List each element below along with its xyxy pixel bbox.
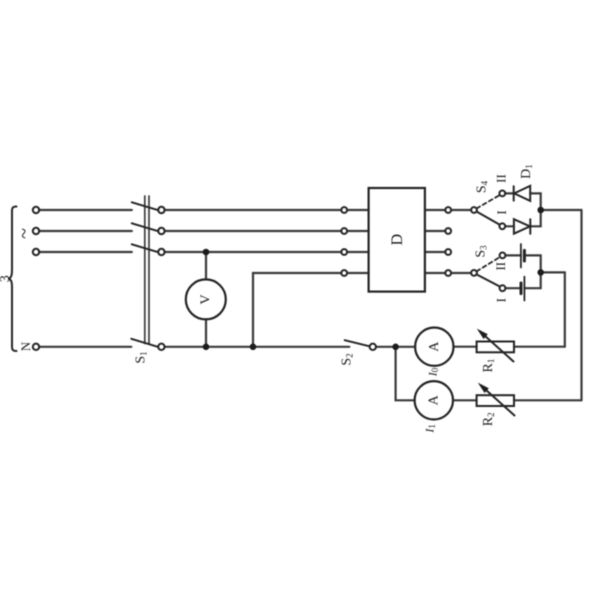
wire to diode upper — [505, 192, 514, 194]
node V tap — [203, 249, 210, 256]
D box input circle 4 — [341, 270, 347, 276]
R1 arrow — [481, 332, 514, 361]
wire R2 right — [514, 399, 582, 401]
svg-text:I: I — [494, 210, 509, 214]
wire right column outer — [580, 210, 582, 400]
switch S1 contact L2 — [158, 228, 164, 234]
switch S2 contact — [370, 344, 376, 350]
terminal L2 — [33, 228, 39, 234]
wire L1 to D — [165, 209, 342, 211]
switch S3 blade to I — [477, 274, 501, 286]
svg-text:S1: S1 — [134, 351, 149, 363]
svg-text:S4: S4 — [475, 180, 490, 193]
wire to diode lower — [505, 225, 514, 227]
stub input 3 — [347, 251, 369, 253]
switch S3 contact I — [500, 285, 506, 291]
wire branch down — [396, 347, 415, 401]
device D box — [369, 188, 425, 292]
D box output circle 1 — [445, 207, 451, 213]
diode D1 lower triangle — [514, 219, 530, 234]
cell upper long plate — [520, 244, 522, 268]
svg-text:D1: D1 — [519, 164, 534, 179]
ammeter I1 — [415, 381, 453, 419]
svg-text:S2: S2 — [340, 353, 355, 365]
wire D input 4 — [253, 273, 341, 347]
terminal N — [33, 344, 39, 350]
switch S3 pole — [471, 270, 477, 276]
svg-text:II: II — [493, 174, 508, 183]
switch S3 dashed to II — [477, 257, 501, 271]
brace 3-phase supply — [8, 207, 16, 352]
D box input circle 2 — [341, 228, 347, 234]
wire to cell lower — [505, 287, 521, 289]
svg-text:S3: S3 — [474, 245, 489, 258]
switch S1 blade L1 — [132, 202, 158, 210]
D box input circle 3 — [341, 249, 347, 255]
svg-text:I0: I0 — [426, 367, 441, 377]
svg-text:V: V — [198, 294, 213, 304]
ammeter I0 — [415, 328, 453, 366]
D box input circle 1 — [341, 207, 347, 213]
wire diode junction right — [541, 209, 582, 211]
stub output 3 — [425, 251, 445, 253]
node diode junction — [537, 207, 544, 214]
wire L3 to S1 — [39, 251, 132, 253]
svg-text:II: II — [493, 262, 508, 271]
switch S1 contact N — [158, 344, 164, 350]
wire output 1 to S4 — [451, 209, 471, 211]
svg-text:N: N — [18, 341, 33, 351]
wire cell junction right — [541, 271, 565, 273]
D box output circle 4 — [445, 270, 451, 276]
switch S4 pole — [471, 207, 477, 213]
switch S4 contact I — [499, 223, 505, 229]
R2 arrow — [482, 386, 515, 415]
stub output 1 — [425, 209, 445, 211]
node cell junction — [537, 269, 544, 276]
svg-text:3: 3 — [0, 275, 13, 282]
svg-text:R2: R2 — [481, 412, 496, 426]
switch S2 blade — [345, 340, 370, 346]
diode D1 upper triangle — [514, 186, 530, 201]
switch S4 blade to I — [477, 212, 500, 225]
wire V bottom — [205, 319, 207, 346]
D box output circle 2 — [445, 228, 451, 234]
wire L2 to S1 — [39, 230, 132, 232]
node V bottom — [203, 344, 210, 351]
wire N rail — [165, 346, 350, 348]
wire L2 to D — [165, 230, 342, 232]
stub output 2 — [425, 230, 445, 232]
stub input 4 — [347, 272, 369, 274]
wire L1 to S1 — [39, 209, 132, 211]
cell upper short plate — [523, 250, 526, 261]
switch S1 contact L3 — [158, 249, 164, 255]
switch S4 dashed to II — [477, 195, 500, 209]
svg-text:D: D — [389, 234, 406, 246]
svg-text:I1: I1 — [423, 424, 438, 434]
switch S1 contact L1 — [158, 207, 164, 213]
switch S1 blade L2 — [132, 223, 158, 231]
cell lower short plate — [520, 283, 523, 294]
resistor R1 — [477, 342, 514, 353]
switch S1 link bar — [144, 196, 146, 344]
switch S1 blade L3 — [132, 244, 158, 252]
node ammeter branch — [392, 344, 399, 351]
stub output 4 — [425, 272, 445, 274]
wire L3 to D — [165, 251, 342, 253]
switch S3 contact II — [500, 253, 506, 259]
node neutral to D — [250, 344, 257, 351]
switch S4 contact II — [499, 191, 505, 197]
wire cell upper out — [524, 255, 540, 269]
D box output circle 3 — [445, 249, 451, 255]
wire S2 to ammeters — [376, 346, 415, 348]
svg-text:A: A — [427, 341, 442, 352]
wire I1 to R2 — [453, 399, 477, 401]
svg-text:R1: R1 — [481, 359, 496, 373]
wire I0 to R1 — [454, 346, 477, 348]
wire cell lower out — [524, 275, 540, 288]
terminal L1 — [33, 207, 39, 213]
wire V top — [205, 252, 207, 280]
wire to cell upper — [505, 254, 521, 256]
wire N to S1 — [39, 346, 131, 348]
stub input 2 — [347, 230, 369, 232]
stub input 1 — [347, 209, 369, 211]
svg-text:A: A — [426, 394, 441, 405]
resistor R2 — [477, 395, 514, 406]
switch S1 blade N — [131, 339, 158, 347]
wire diode upper out — [530, 193, 541, 207]
terminal L3 — [33, 249, 39, 255]
wire R1 right — [514, 346, 565, 348]
svg-text:I: I — [494, 298, 509, 302]
cell lower long plate — [523, 277, 525, 301]
wire output 4 to S3 — [451, 272, 471, 274]
diode D1 upper cathode bar — [513, 186, 515, 200]
wire diode lower out — [530, 213, 540, 226]
wire right column inner — [564, 272, 566, 346]
voltmeter V — [186, 279, 226, 319]
diode D1 lower cathode bar — [529, 219, 531, 234]
